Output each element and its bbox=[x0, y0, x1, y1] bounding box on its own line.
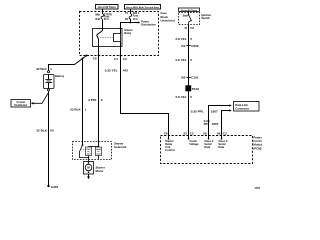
svg-text:Coil: Coil bbox=[97, 153, 101, 155]
svg-text:C8: C8 bbox=[93, 56, 97, 60]
svg-text:C1: C1 bbox=[114, 57, 118, 61]
svg-text:5: 5 bbox=[190, 58, 192, 62]
svg-text:5: 5 bbox=[190, 37, 192, 41]
svg-text:32 BLK: 32 BLK bbox=[36, 67, 47, 71]
label 32 BLK 1 (solenoid cable) bbox=[70, 108, 86, 112]
wire: fuse2 feed bbox=[130, 9, 132, 14]
wire: PCM pin 58 up to data link connector bbox=[222, 109, 232, 135]
svg-text:1: 1 bbox=[85, 108, 87, 112]
connector C202 bbox=[181, 44, 198, 48]
solenoid feed junction bbox=[89, 142, 100, 148]
svg-text:B6: B6 bbox=[181, 76, 185, 80]
battery negative post bbox=[48, 89, 50, 91]
starter motor bbox=[84, 162, 94, 175]
page number bbox=[255, 187, 261, 190]
chassis ground arrow under motor bbox=[87, 174, 90, 179]
fuse F1 labels bbox=[95, 13, 112, 21]
wire: pull-in coil / contact to starter motor bbox=[88, 156, 90, 162]
label box: Hot At All Times (ignition) bbox=[179, 8, 200, 12]
label 0.8 YEL 5 (2) bbox=[175, 58, 192, 62]
svg-text:Motor: Motor bbox=[96, 169, 105, 173]
svg-text:Data: Data bbox=[218, 145, 224, 149]
PCM internal: class 2 serial data (pin 50) bbox=[204, 136, 214, 149]
svg-text:C3: C3 bbox=[123, 57, 127, 61]
solenoid link (dotted) bbox=[82, 149, 86, 151]
svg-text:P102: P102 bbox=[192, 87, 200, 91]
battery label bbox=[55, 74, 65, 78]
wire: fuse1 to relay bbox=[102, 19, 104, 28]
svg-text:(PCM): (PCM) bbox=[253, 146, 261, 150]
ground distribution reference box bbox=[11, 100, 31, 108]
svg-text:3 PPL: 3 PPL bbox=[88, 98, 97, 102]
svg-text:Solenoid: Solenoid bbox=[114, 145, 126, 149]
label 32 BLK 1 (battery wire) bbox=[36, 67, 52, 71]
svg-text:Coil: Coil bbox=[87, 153, 91, 155]
PCM internal: starter relay coil control bbox=[165, 136, 174, 152]
svg-text:Start: Start bbox=[183, 15, 189, 18]
pass-through grommet P102 bbox=[186, 86, 199, 91]
battery bbox=[44, 75, 55, 89]
ground G306 bbox=[47, 185, 58, 189]
label 0.8 YEL 5 (3) bbox=[175, 95, 192, 99]
ignition switch (dashed box) bbox=[179, 13, 200, 25]
ignition switch internals bbox=[183, 11, 192, 24]
svg-text:0.8 YEL: 0.8 YEL bbox=[175, 95, 186, 99]
starter motor label bbox=[96, 165, 106, 173]
PCM label bbox=[253, 136, 268, 151]
label 0.35 PPL 1807 (upper) bbox=[191, 109, 218, 113]
junction: fuse2 output node bbox=[130, 22, 132, 24]
svg-text:Data: Data bbox=[204, 145, 210, 149]
svg-text:Underhood: Underhood bbox=[161, 18, 176, 22]
relay link (dotted) bbox=[100, 37, 113, 39]
svg-text:10 A: 10 A bbox=[133, 18, 138, 21]
label 3 PPL 6 bbox=[88, 98, 103, 102]
svg-text:Hot in RUN, Bulb Test and Star: Hot in RUN, Bulb Test and Start bbox=[126, 6, 159, 9]
svg-text:30 A: 30 A bbox=[104, 18, 109, 21]
svg-text:23: 23 bbox=[183, 132, 187, 136]
label 0.8 YEL 5 (1) bbox=[175, 37, 192, 41]
svg-text:Switch: Switch bbox=[201, 16, 210, 20]
wire: junction left and down to relay coil feed bbox=[121, 23, 131, 29]
relay switch bbox=[97, 28, 104, 47]
svg-text:Block: Block bbox=[161, 15, 169, 19]
svg-text:50: 50 bbox=[203, 132, 207, 136]
svg-text:79: 79 bbox=[164, 132, 168, 136]
svg-text:Ignition: Ignition bbox=[201, 13, 211, 17]
junction: solenoid battery tap bbox=[82, 58, 84, 60]
svg-text:M9a: M9a bbox=[95, 13, 100, 16]
svg-text:32 BLK: 32 BLK bbox=[70, 108, 81, 112]
svg-text:Control: Control bbox=[165, 148, 174, 152]
svg-text:C202: C202 bbox=[191, 44, 199, 48]
svg-text:R4d: R4d bbox=[95, 18, 100, 21]
relay label bbox=[124, 28, 132, 35]
wire: fuse1 feed from Hot At All Times bbox=[102, 9, 104, 14]
fuse IGN1 10A bbox=[129, 14, 132, 19]
pointer arrow to Ground Distribution bbox=[31, 93, 49, 105]
svg-text:C2: C2 bbox=[223, 132, 227, 136]
svg-text:0.35 YEL: 0.35 YEL bbox=[105, 69, 118, 73]
wire: relay C8 down to solenoid coils (3 PPL 6) bbox=[98, 56, 100, 142]
wire: relay coil output to pin C3 bbox=[120, 47, 122, 57]
PCM internal: crank voltage bbox=[188, 136, 199, 146]
svg-text:58: 58 bbox=[217, 132, 221, 136]
PCM pin labels bbox=[164, 132, 227, 136]
svg-text:Relay: Relay bbox=[124, 31, 131, 35]
svg-text:Hot at All Times: Hot at All Times bbox=[98, 6, 117, 9]
svg-text:1807: 1807 bbox=[212, 122, 219, 126]
label 32 BLK 50 bbox=[36, 129, 54, 133]
svg-text:5: 5 bbox=[190, 95, 192, 99]
svg-text:1797: 1797 bbox=[255, 187, 261, 190]
label: Fuse Block Underhood bbox=[161, 11, 176, 22]
pin labels C1 / C3 bbox=[114, 57, 127, 61]
svg-text:C101: C101 bbox=[191, 76, 199, 80]
label 0.35 PPL 1807 (lower) bbox=[204, 119, 219, 126]
svg-text:1: 1 bbox=[50, 67, 52, 71]
wire: PCM pin 50 up to data link connector bbox=[209, 104, 232, 135]
ignition switch label bbox=[201, 13, 211, 20]
label 0.35 YEL 442 bbox=[105, 69, 128, 73]
wire: relay coil to PCM pin 79 (0.35 YEL 442) bbox=[121, 56, 169, 136]
svg-text:Voltage: Voltage bbox=[189, 142, 199, 146]
underhood fuse block (dashed box) bbox=[80, 12, 159, 56]
relay box bbox=[93, 29, 123, 47]
svg-text:C2: C2 bbox=[190, 26, 194, 30]
fuse STRTR 30A bbox=[101, 14, 104, 19]
solenoid pull-in coil bbox=[86, 147, 92, 156]
starter solenoid label bbox=[114, 141, 126, 149]
data link connector box bbox=[234, 102, 260, 112]
starter solenoid (dashed box) bbox=[73, 142, 112, 160]
svg-text:G306: G306 bbox=[51, 185, 59, 189]
svg-text:32 BLK: 32 BLK bbox=[36, 129, 47, 133]
pin label C8 bbox=[93, 56, 97, 60]
wire: relay switch output to pin C8 bbox=[98, 47, 100, 57]
wire: battery tap down to starter solenoid B stud (32 BLK 1) bbox=[82, 59, 84, 142]
PCM internal: class 2 serial data (pin 58) bbox=[218, 136, 228, 149]
svg-text:442: 442 bbox=[123, 69, 128, 73]
svg-text:50: 50 bbox=[50, 129, 54, 133]
svg-text:D3: D3 bbox=[181, 44, 185, 48]
label box: Hot At All Times (left) bbox=[96, 5, 119, 10]
PCM box (dashed) bbox=[161, 136, 253, 164]
pin label B C2 bbox=[185, 26, 195, 30]
svg-text:Battery: Battery bbox=[55, 74, 65, 78]
svg-text:1807: 1807 bbox=[211, 109, 218, 113]
relay coil bbox=[114, 28, 122, 47]
wire: junction to Power Distribution arrow bbox=[131, 21, 141, 23]
wire: ignition B output down to PCM pin 23 bbox=[188, 25, 190, 136]
svg-text:Distribution: Distribution bbox=[14, 104, 27, 107]
svg-text:Connector: Connector bbox=[235, 107, 250, 111]
connector C101 bbox=[181, 76, 198, 80]
wire: battery positive cable (diagonal to fuse block stud) bbox=[49, 55, 88, 71]
svg-text:0.8 YEL: 0.8 YEL bbox=[175, 37, 186, 41]
svg-text:Distribution: Distribution bbox=[141, 23, 156, 27]
label: Power Distribution bbox=[141, 20, 156, 27]
solenoid hold-in coil bbox=[96, 147, 102, 160]
svg-text:0.8 YEL: 0.8 YEL bbox=[175, 58, 186, 62]
svg-text:0.35 PPL: 0.35 PPL bbox=[191, 109, 204, 113]
battery positive post bbox=[48, 71, 50, 73]
wire: fuse2 down to junction bbox=[130, 19, 132, 23]
svg-text:Fuse: Fuse bbox=[161, 11, 168, 15]
svg-text:PPL: PPL bbox=[204, 122, 210, 126]
svg-text:6: 6 bbox=[101, 98, 103, 102]
wire: battery to ground G306 bbox=[48, 91, 50, 186]
svg-text:Hot at All Times: Hot at All Times bbox=[181, 9, 198, 12]
svg-text:Ground: Ground bbox=[17, 102, 26, 104]
solenoid contact switch bbox=[80, 142, 89, 158]
svg-text:C2: C2 bbox=[190, 132, 194, 136]
fuse F2 labels bbox=[125, 12, 140, 21]
label box: Hot In RUN And START bbox=[125, 5, 161, 10]
